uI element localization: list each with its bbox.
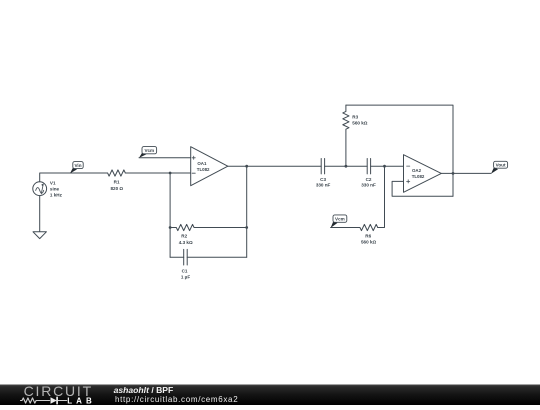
op-amp OA1 bbox=[191, 147, 228, 186]
resistor R6 bbox=[331, 224, 378, 230]
resistor R2 bbox=[170, 224, 247, 230]
svg-text:820 Ω: 820 Ω bbox=[110, 186, 123, 191]
label OA2 TL082 bbox=[412, 168, 425, 179]
flag Vcm (OA1) bbox=[139, 147, 157, 158]
svg-text:R2: R2 bbox=[181, 233, 187, 238]
svg-text:Vin: Vin bbox=[74, 163, 81, 168]
svg-text:OA1: OA1 bbox=[197, 161, 207, 166]
wire Vcm to OA1 non-inverting input bbox=[139, 157, 191, 159]
resistor R3 bbox=[343, 105, 349, 166]
svg-text:R6: R6 bbox=[365, 233, 371, 238]
node junction R2 left bbox=[169, 226, 172, 229]
svg-text:sine: sine bbox=[50, 187, 60, 192]
wire OA2 output bbox=[441, 172, 491, 174]
node junction OA1 output feedback tap bbox=[245, 165, 248, 168]
svg-text:330 nF: 330 nF bbox=[316, 182, 331, 187]
wire R3 top loop to OA2 output bbox=[346, 105, 453, 196]
svg-text:4.3 kΩ: 4.3 kΩ bbox=[179, 240, 193, 245]
svg-text:C3: C3 bbox=[320, 177, 326, 182]
svg-text:Vcm: Vcm bbox=[144, 148, 154, 153]
svg-text:R3: R3 bbox=[352, 115, 358, 120]
voltage source V1 bbox=[33, 182, 47, 196]
svg-text:560 kΩ: 560 kΩ bbox=[361, 240, 376, 245]
flag Vcm (R6) bbox=[331, 215, 347, 228]
label R3 560 kohm bbox=[352, 115, 367, 126]
svg-text:1 kHz: 1 kHz bbox=[50, 192, 63, 197]
svg-text:C1: C1 bbox=[182, 268, 188, 273]
resistor R1 bbox=[108, 170, 126, 176]
svg-text:C2: C2 bbox=[366, 177, 372, 182]
wire OA1 output to C3 bbox=[228, 165, 321, 167]
flag Vin bbox=[70, 162, 83, 174]
capacitor C3 bbox=[321, 159, 367, 174]
label OA1 TL082 bbox=[197, 161, 210, 172]
capacitor C1 bbox=[170, 249, 247, 265]
label C2 330 nF bbox=[361, 177, 376, 188]
svg-text:http://circuitlab.com/cem6xa2: http://circuitlab.com/cem6xa2 bbox=[115, 395, 238, 404]
label V1 sine 1 kHz bbox=[50, 180, 63, 197]
label R1 820 ohm bbox=[110, 180, 123, 191]
node junction at feedback tap bbox=[169, 172, 172, 175]
capacitor C2 bbox=[367, 159, 403, 174]
wire feedback right vertical bbox=[246, 166, 248, 257]
svg-text:OA2: OA2 bbox=[412, 168, 422, 173]
svg-text:TL082: TL082 bbox=[197, 167, 210, 172]
node junction OA2 inverting input tap bbox=[383, 165, 386, 168]
flag Vout bbox=[491, 161, 508, 174]
footer bar bbox=[0, 385, 540, 406]
svg-text:TL082: TL082 bbox=[412, 174, 425, 179]
ground bbox=[33, 232, 46, 239]
svg-text:Vcm: Vcm bbox=[335, 217, 345, 222]
wire R1 to OA1 inverting input bbox=[125, 172, 190, 174]
CircuitLab logo resistor-diode glyph bbox=[21, 397, 67, 403]
wire feedback left vertical bbox=[169, 173, 171, 257]
node junction C3-C2-R3 bbox=[345, 165, 348, 168]
svg-text:Vout: Vout bbox=[496, 163, 506, 168]
node junction R2 right bbox=[245, 226, 248, 229]
svg-text:ashaohlt / BPF: ashaohlt / BPF bbox=[114, 385, 174, 395]
svg-text:330 nF: 330 nF bbox=[361, 182, 376, 187]
op-amp OA2 bbox=[404, 155, 442, 193]
svg-text:560 kΩ: 560 kΩ bbox=[352, 121, 367, 126]
svg-text:LAB: LAB bbox=[67, 396, 95, 405]
label C1 1 uF bbox=[181, 268, 190, 279]
label R2 4.3 kohm bbox=[179, 233, 193, 244]
wire down to R6 bbox=[378, 166, 385, 227]
wire V1 bottom to ground bbox=[39, 196, 41, 232]
wire V1 top to R1 bbox=[40, 173, 108, 182]
label R6 560 kohm bbox=[361, 233, 376, 244]
wire OA2 non-inverting feedback loop bbox=[392, 181, 453, 196]
node junction OA2 output bbox=[452, 172, 455, 175]
svg-text:R1: R1 bbox=[114, 180, 120, 185]
label C3 330 nF bbox=[316, 177, 331, 188]
svg-text:1 µF: 1 µF bbox=[181, 274, 190, 279]
svg-text:V1: V1 bbox=[50, 180, 56, 185]
